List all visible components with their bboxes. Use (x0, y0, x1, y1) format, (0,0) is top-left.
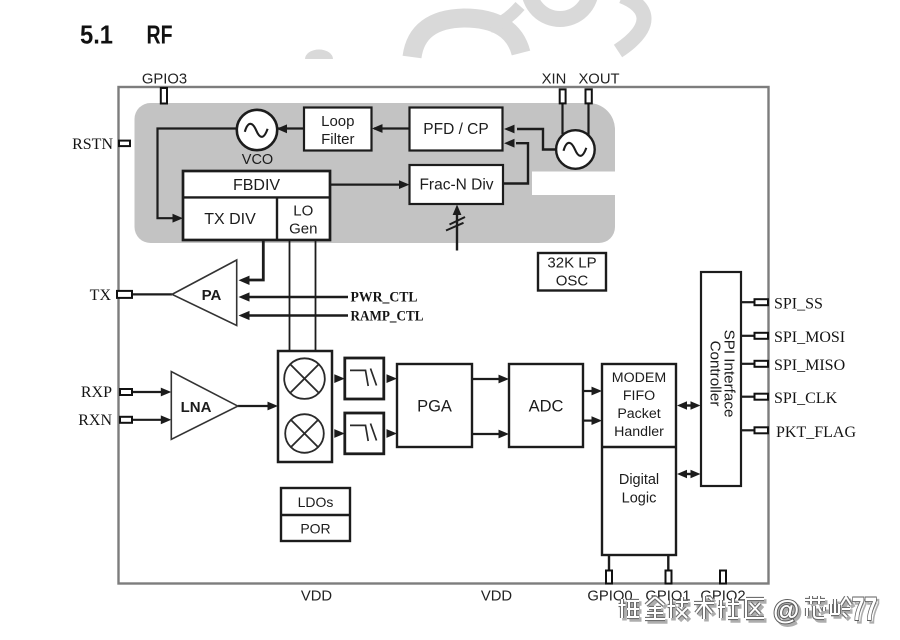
filter 1 (345, 358, 384, 399)
svg-text:VCO: VCO (242, 152, 273, 168)
wire filter1 to PGA (387, 374, 398, 383)
svg-text:SPI_SS: SPI_SS (774, 296, 823, 313)
svg-text:LDOs: LDOs (298, 494, 334, 510)
block 32K LP OSC (538, 253, 606, 291)
svg-text:RF: RF (147, 20, 173, 50)
svg-text:XOUT: XOUT (578, 72, 619, 88)
bidir wire Digital Logic to SPI (684, 473, 694, 475)
block PGA (397, 364, 472, 447)
block FBDIV / TX DIV / LO Gen (183, 171, 330, 240)
svg-text:SPI_CLK: SPI_CLK (774, 390, 838, 407)
svg-text:PA: PA (202, 287, 222, 304)
svg-text:VDD: VDD (301, 589, 332, 605)
wire TX DIV to PA (249, 240, 263, 280)
pin RXN (120, 417, 132, 423)
svg-text:SPI_MOSI: SPI_MOSI (774, 329, 845, 346)
svg-text:Packet: Packet (617, 406, 660, 422)
svg-text:LNA: LNA (181, 399, 212, 416)
svg-text:Logic: Logic (622, 491, 657, 507)
pin GPIO1 (666, 571, 672, 584)
PLL gray region (135, 103, 616, 243)
svg-text:77: 77 (852, 591, 877, 627)
svg-text:TX DIV: TX DIV (204, 211, 256, 228)
svg-text:RXN: RXN (78, 412, 112, 429)
block LDOs / POR (281, 488, 350, 541)
svg-text:GPIO3: GPIO3 (142, 72, 187, 88)
svg-text:Handler: Handler (614, 424, 664, 440)
pin RSTN (119, 141, 130, 147)
svg-text:VDD: VDD (481, 589, 512, 605)
wire PGA to ADC upper (472, 378, 499, 380)
pin XOUT (586, 89, 592, 103)
block PFD / CP (410, 108, 503, 151)
svg-text:FIFO: FIFO (623, 388, 655, 404)
wire PGA to ADC lower (472, 433, 499, 435)
wire PFD/CP to Loop Filter (374, 127, 410, 129)
block SPI Interface Controller (701, 272, 741, 486)
wire PA to TX pin (130, 293, 172, 295)
mixer block (278, 351, 332, 462)
svg-text:PGA: PGA (417, 398, 452, 416)
wire ADC to MODEM lower (592, 416, 603, 425)
wire filter2 to PGA (387, 429, 398, 438)
pin SPI_MISO (755, 361, 769, 367)
pin GPIO3 (161, 88, 167, 104)
svg-text:MODEM: MODEM (612, 370, 666, 386)
bus into Frac-N Div bottom (456, 213, 458, 251)
pin SPI_MOSI (755, 333, 769, 339)
wire crystal to PFD/CP (517, 129, 557, 150)
pin GPIO2 (720, 571, 726, 584)
block Frac-N Div (410, 165, 504, 204)
wire ADC to MODEM upper (592, 387, 603, 396)
svg-text:SPI_MISO: SPI_MISO (774, 357, 845, 374)
PWR_CTL wire (248, 296, 348, 299)
svg-text:Filter: Filter (321, 131, 354, 148)
svg-text:5.1: 5.1 (80, 20, 113, 50)
block Loop Filter (304, 108, 372, 151)
svg-text:PWR_CTL: PWR_CTL (351, 290, 418, 306)
svg-text:Loop: Loop (321, 113, 354, 130)
svg-text:Controller: Controller (706, 341, 723, 407)
svg-text:RXP: RXP (81, 384, 112, 401)
amplifier LNA (171, 372, 238, 440)
heading 5.1 RF (80, 20, 173, 50)
block ADC (509, 364, 583, 447)
block MODEM FIFO Packet Handler / Digital Logic (602, 364, 676, 555)
svg-text:Frac-N Div: Frac-N Div (419, 176, 493, 193)
gray region notch (532, 172, 620, 196)
wire Frac-N Div to PFD/CP (503, 143, 528, 183)
svg-text:TX: TX (90, 287, 112, 304)
pin PKT_FLAG (755, 427, 769, 433)
wires SPI to right pins (741, 302, 756, 430)
wire mixer1 to filter1 (334, 374, 345, 383)
wire FBDIV to Frac-N Div (330, 184, 400, 186)
pin RXP (120, 389, 132, 395)
pin SPI_CLK (755, 394, 769, 400)
VCO (237, 110, 277, 168)
wire LNA to mixers (238, 405, 269, 407)
svg-text:Gen: Gen (289, 221, 317, 238)
wire Digital Logic to GPIO1 (667, 555, 669, 572)
svg-text:@: @ (773, 595, 799, 625)
wire RXP to LNA (132, 391, 162, 393)
svg-text:OSC: OSC (556, 272, 589, 289)
wire Digital Logic to GPIO0 (608, 555, 610, 572)
amplifier PA (172, 260, 237, 326)
LO gen line B (315, 240, 317, 351)
svg-text:RAMP_CTL: RAMP_CTL (351, 309, 424, 325)
crystal oscillator (556, 130, 595, 169)
pin XIN (560, 89, 566, 103)
svg-text:FBDIV: FBDIV (233, 177, 280, 194)
watermark swoosh top (305, 0, 644, 59)
pin GPIO0 (606, 571, 612, 584)
chip outline box (119, 87, 769, 584)
pin TX (117, 291, 132, 298)
wire XOUT to crystal (587, 103, 589, 136)
svg-text:32K LP: 32K LP (547, 254, 596, 271)
pin SPI_SS (755, 299, 769, 305)
svg-text:RSTN: RSTN (72, 136, 113, 153)
wire Loop Filter to VCO (278, 127, 304, 129)
svg-text:PFD / CP: PFD / CP (423, 121, 488, 138)
svg-text:POR: POR (300, 521, 330, 537)
svg-text:Digital: Digital (619, 472, 659, 488)
wire VCO feedback to TX DIV (158, 129, 239, 219)
LO gen line A (289, 240, 291, 351)
wire mixer2 to filter2 (334, 429, 345, 438)
svg-text:ADC: ADC (529, 398, 564, 416)
RAMP_CTL wire (248, 314, 348, 317)
bidir wire MODEM to SPI (684, 404, 694, 406)
wire RXN to LNA (132, 419, 162, 421)
svg-text:PKT_FLAG: PKT_FLAG (776, 424, 856, 441)
wire XIN to crystal (561, 103, 563, 134)
svg-text:XIN: XIN (542, 72, 567, 88)
filter 2 (345, 413, 384, 454)
svg-text:LO: LO (293, 203, 313, 220)
